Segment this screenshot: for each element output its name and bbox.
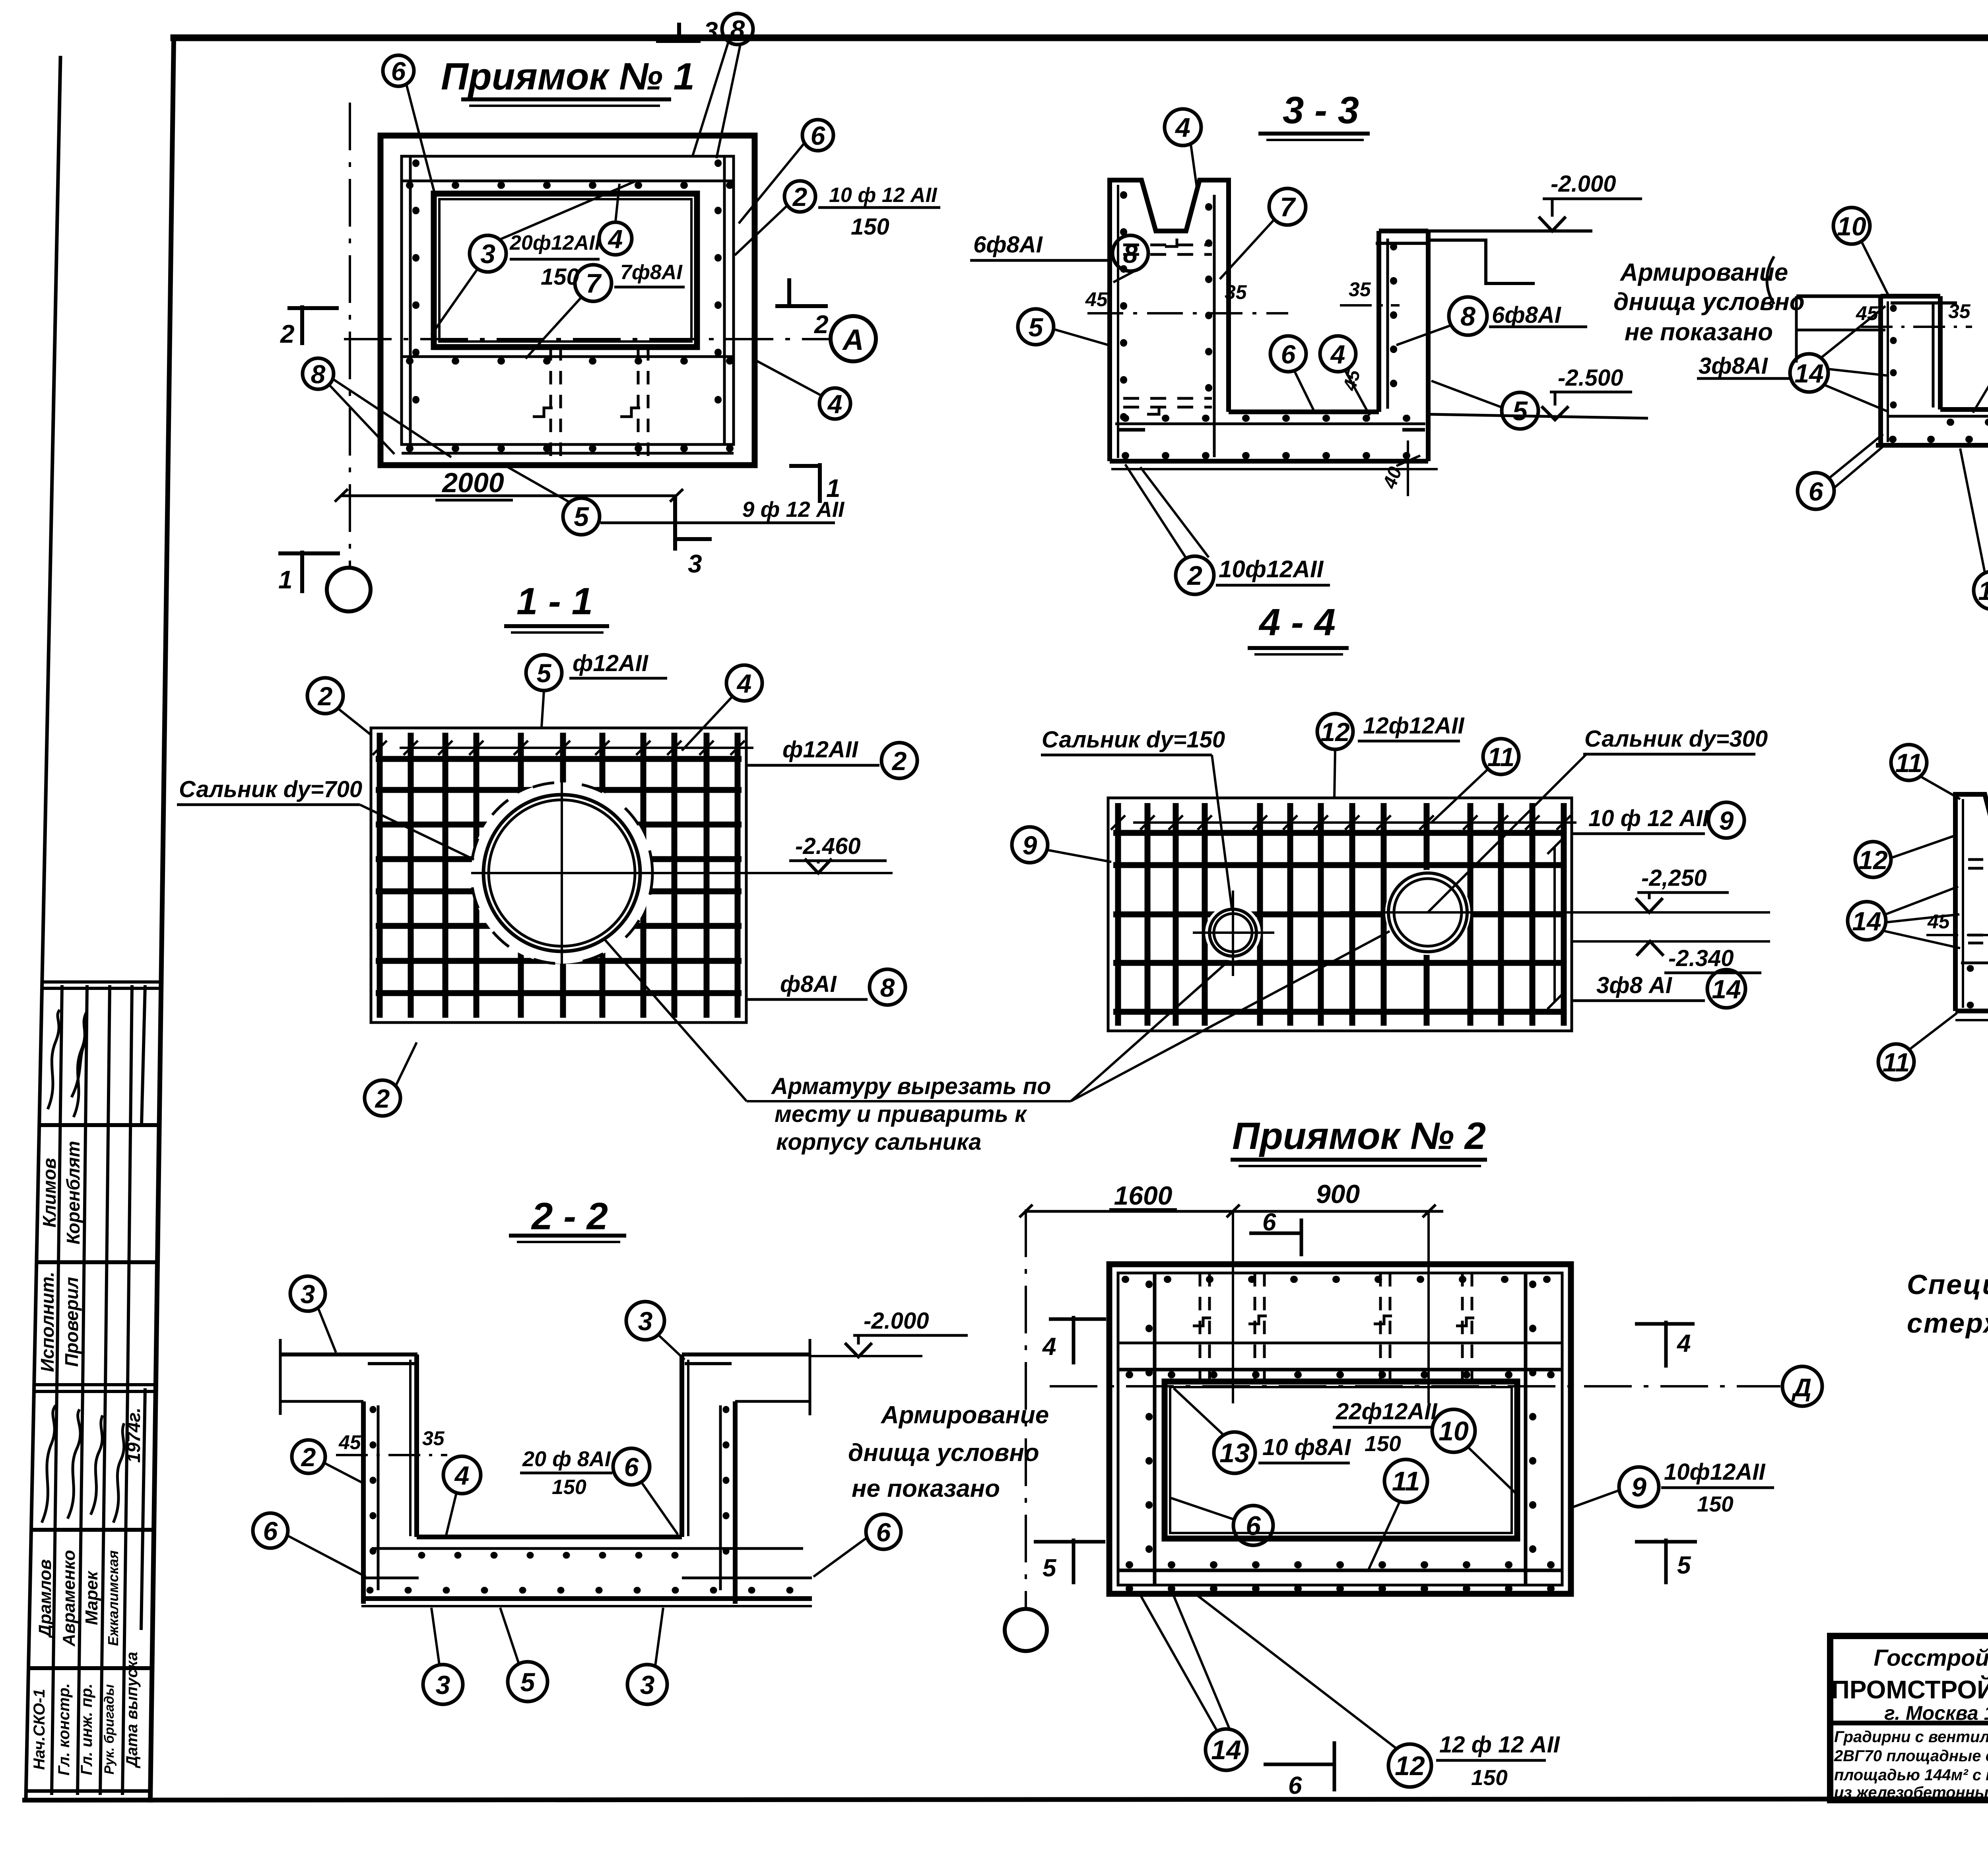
svg-text:2: 2 — [814, 310, 829, 339]
svg-text:4: 4 — [1042, 1333, 1056, 1360]
svg-text:Госстрой СССР: Госстрой СССР — [1874, 1645, 1988, 1671]
4-4 gland dy=300 rings — [1388, 873, 1467, 952]
svg-text:13: 13 — [1219, 1438, 1250, 1468]
lower stamp signatures — [42, 1405, 124, 1523]
stamp table top double line — [42, 980, 161, 984]
stamp row line under signatures — [39, 1123, 159, 1127]
svg-text:20ф12АII: 20ф12АII — [509, 231, 601, 254]
2-2 callout 3 top right — [626, 1302, 664, 1340]
svg-text:3: 3 — [704, 17, 718, 45]
bottom band rebar line — [402, 452, 734, 455]
step glyph left — [533, 408, 553, 417]
dimension 2000 — [335, 489, 683, 502]
5-5 measure line — [1861, 326, 1972, 328]
svg-text:площадью 144м² с каркасом: площадью 144м² с каркасом — [1834, 1766, 1988, 1784]
svg-text:9: 9 — [1023, 830, 1037, 860]
svg-text:Приямок № 2: Приямок № 2 — [1232, 1115, 1486, 1157]
svg-text:150: 150 — [851, 214, 889, 240]
П2 plan wall inner rectangle — [1118, 1273, 1562, 1585]
П2 section mark 6 bottom — [1264, 1741, 1334, 1791]
pit opening rectangle — [434, 194, 697, 347]
1-1 gland dy=700 rings — [483, 795, 640, 951]
svg-text:8: 8 — [1123, 239, 1138, 268]
6-6 left wall inner line — [1962, 799, 1964, 1008]
svg-text:900: 900 — [1316, 1179, 1360, 1209]
svg-text:ф12АII: ф12АII — [573, 650, 649, 676]
svg-text:35: 35 — [1225, 281, 1247, 303]
6-6 callout 11 top left — [1891, 745, 1927, 780]
svg-text:12 ф 12 АII: 12 ф 12 АII — [1439, 1732, 1561, 1758]
axis centerline A — [344, 338, 831, 340]
svg-text:стержни см. на листе АС -: стержни см. на листе АС - 17. — [1907, 1308, 1988, 1339]
svg-text:ПРОМСТРОЙПРОЕКТ: ПРОМСТРОЙПРОЕКТ — [1831, 1675, 1988, 1704]
svg-text:7: 7 — [586, 268, 602, 299]
svg-text:2000: 2000 — [441, 467, 504, 498]
П2 axis horizontal Д — [1050, 1385, 1780, 1387]
svg-text:5: 5 — [1043, 1554, 1057, 1582]
svg-text:6: 6 — [263, 1516, 278, 1546]
svg-text:4: 4 — [736, 669, 752, 698]
top band rebar line — [402, 180, 734, 182]
П2 top band rebar lines — [1118, 1342, 1562, 1345]
svg-text:Проверил: Проверил — [61, 1277, 82, 1367]
svg-text:45: 45 — [338, 1431, 361, 1453]
callout 6 right — [802, 120, 833, 151]
4-4 callout 12 with label 12ф12АII — [1317, 714, 1353, 749]
svg-text:не показано: не показано — [1625, 318, 1773, 346]
lower stamp column dividers — [52, 1388, 57, 1795]
svg-text:14: 14 — [1211, 1735, 1241, 1765]
5-5 left flange floor lines — [1796, 295, 1881, 298]
svg-text:2: 2 — [1186, 561, 1202, 591]
page frame bottom border — [25, 1799, 1988, 1800]
3-3 bottom slab — [1110, 459, 1428, 464]
svg-text:4 - 4: 4 - 4 — [1258, 601, 1336, 644]
1-1 callout 2 top left — [307, 678, 343, 714]
2-2 bottom slab — [417, 1535, 682, 1539]
1-1 top bar tick line — [400, 747, 753, 749]
svg-text:3: 3 — [480, 239, 495, 269]
svg-text:Исполнит.: Исполнит. — [37, 1272, 58, 1372]
2-2 callout 6 bottom right — [866, 1514, 901, 1549]
svg-text:3: 3 — [301, 1279, 315, 1309]
3-3 right wall — [1376, 231, 1381, 412]
svg-text:1 - 1: 1 - 1 — [516, 580, 593, 623]
paper fold edge line — [26, 58, 60, 1800]
svg-text:5: 5 — [574, 502, 589, 532]
3-3 callout 2 bottom with label 10ф12АII — [1176, 556, 1214, 594]
svg-text:2 - 2: 2 - 2 — [531, 1195, 608, 1238]
svg-text:Д: Д — [1791, 1373, 1811, 1402]
4-4 small gland mask — [1205, 905, 1261, 960]
П2 plan outer wall rectangle — [1109, 1264, 1571, 1594]
svg-text:10 ф 12 АII: 10 ф 12 АII — [1588, 805, 1710, 831]
svg-text:4: 4 — [827, 389, 843, 419]
svg-text:-2.000: -2.000 — [864, 1308, 929, 1334]
title block outer box — [1830, 1636, 1988, 1800]
svg-text:6: 6 — [391, 56, 406, 86]
section mark 1 left — [278, 551, 340, 593]
upper stamp names rotated — [37, 1141, 83, 1372]
svg-text:3: 3 — [638, 1306, 653, 1336]
svg-text:из железобетонных элементов: из железобетонных элементов — [1834, 1784, 1988, 1801]
svg-text:-2,250: -2,250 — [1641, 865, 1706, 891]
svg-text:10ф12АII: 10ф12АII — [1664, 1459, 1766, 1485]
svg-text:2: 2 — [280, 320, 295, 348]
svg-text:Приямок № 1: Приямок № 1 — [441, 55, 695, 98]
upper stamp column dividers — [57, 985, 62, 1388]
П2 dimension 1600/900 — [1019, 1205, 1443, 1403]
svg-text:-2.460: -2.460 — [795, 833, 860, 859]
svg-text:Гл. инж. пр.: Гл. инж. пр. — [78, 1684, 95, 1775]
П2 left band vertical rebar — [1153, 1273, 1157, 1585]
П2 section mark 4 left — [1049, 1316, 1106, 1364]
svg-text:Коренблят: Коренблят — [63, 1141, 83, 1245]
plan outer wall rectangle — [381, 136, 755, 465]
П2 callout 12 with label 12ф12АII/150 — [1388, 1744, 1431, 1787]
П2 callout 11 — [1384, 1459, 1427, 1502]
svg-text:6: 6 — [876, 1517, 891, 1547]
svg-text:8: 8 — [880, 973, 895, 1002]
svg-text:3: 3 — [436, 1670, 450, 1700]
svg-text:Авраменко: Авраменко — [59, 1550, 79, 1647]
pit opening inner line — [439, 199, 691, 342]
П2 axis vertical — [1025, 1209, 1027, 1607]
svg-text:20 ф 8АI: 20 ф 8АI — [522, 1447, 611, 1471]
page frame left border — [150, 38, 174, 1800]
svg-text:днища условно: днища условно — [848, 1439, 1039, 1467]
3-3 callout 7 — [1269, 188, 1306, 225]
svg-text:10: 10 — [1837, 212, 1866, 241]
svg-text:2ВГ70 площадные с секциями: 2ВГ70 площадные с секциями — [1834, 1747, 1988, 1765]
left margin stamp table — [26, 982, 161, 1795]
callout 2 right with label 10ф12АII/150 — [784, 181, 815, 212]
П2 callout 14 — [1206, 1729, 1247, 1770]
svg-text:150: 150 — [1365, 1431, 1401, 1456]
1-1 gland hole mask — [471, 782, 652, 964]
3-3 callout 4 lower — [1320, 336, 1356, 372]
4-4 big gland mask — [1385, 870, 1470, 955]
4-4 elevation -2.340 — [1572, 940, 1770, 943]
4-4 callout 9 left — [1012, 827, 1048, 863]
П2 section mark 6 top — [1249, 1219, 1301, 1256]
П2 step glyphs — [1193, 1318, 1211, 1326]
svg-text:Ежкалимская: Ежкалимская — [105, 1550, 121, 1646]
hidden dashed bar bottom band left — [549, 347, 552, 465]
svg-text:12: 12 — [1858, 845, 1888, 875]
svg-text:3ф8 АI: 3ф8 АI — [1596, 972, 1673, 998]
svg-text:10: 10 — [1439, 1416, 1469, 1446]
2-2 right wall — [679, 1354, 684, 1537]
4-4 gland centreline to elevation — [1340, 911, 1770, 914]
3-3 callout 6 — [1270, 336, 1306, 372]
svg-text:Сальник dy=700: Сальник dy=700 — [179, 776, 362, 802]
svg-text:Градирни с вентиляторами: Градирни с вентиляторами — [1834, 1728, 1988, 1746]
svg-text:45: 45 — [1927, 910, 1950, 933]
svg-text:Рук. бригады: Рук. бригады — [102, 1684, 117, 1775]
2-2 callout 5 bottom — [508, 1662, 547, 1702]
2-2 callout 3 top left — [290, 1276, 325, 1311]
svg-text:днища условно: днища условно — [1613, 288, 1805, 316]
svg-text:12: 12 — [1395, 1751, 1425, 1781]
callout 4 bottom right — [819, 388, 850, 419]
6-6 callout 11 bottom left — [1878, 1044, 1914, 1080]
svg-text:22ф12АII: 22ф12АII — [1336, 1399, 1438, 1424]
callout 7 with label 7ф8АI — [575, 265, 612, 301]
1-1 callout 5 with label ф12АII — [526, 655, 562, 691]
svg-text:7ф8АI: 7ф8АI — [620, 261, 683, 284]
П2 axis circle Д — [1782, 1366, 1822, 1406]
2-2 left wall — [361, 1401, 366, 1604]
lower stamp names rotated — [35, 1550, 121, 1647]
svg-text:2: 2 — [301, 1442, 316, 1472]
svg-text:6: 6 — [1262, 1209, 1276, 1236]
svg-text:11: 11 — [1895, 748, 1923, 778]
П2 callout 13 with label 10ф8АI — [1214, 1432, 1255, 1473]
svg-text:12: 12 — [1978, 576, 1988, 605]
axis circle A — [831, 316, 876, 361]
svg-text:9: 9 — [1631, 1472, 1646, 1502]
5-5 callout 14 left with label 3ф8АI — [1790, 354, 1828, 392]
svg-text:Армирование: Армирование — [1619, 259, 1788, 286]
svg-text:6: 6 — [1281, 340, 1296, 369]
1-1 callout 2 bottom — [365, 1080, 400, 1116]
3-3 callout 5 right — [1502, 392, 1538, 429]
1-1 cutting note leaders — [747, 1100, 1071, 1102]
3-3 wall dashed laps bottom — [1123, 397, 1212, 400]
П2 pit opening inner line — [1170, 1387, 1512, 1533]
svg-text:2: 2 — [792, 182, 808, 212]
svg-text:150: 150 — [1697, 1492, 1734, 1516]
svg-text:6: 6 — [624, 1452, 639, 1482]
3-3 notch anchor glyph — [1165, 239, 1177, 246]
svg-text:5: 5 — [1029, 312, 1044, 342]
svg-text:Нач.СКО-1: Нач.СКО-1 — [31, 1689, 48, 1770]
svg-text:6: 6 — [1288, 1772, 1302, 1799]
svg-text:6: 6 — [1246, 1511, 1261, 1541]
П2 right band vertical rebar — [1524, 1273, 1528, 1585]
1-1 callout 4 top right — [726, 665, 762, 701]
svg-text:4: 4 — [1676, 1330, 1691, 1357]
3-3 callout 4 top — [1165, 109, 1201, 146]
2-2 right flange floor lines — [682, 1352, 810, 1356]
svg-text:6ф8АI: 6ф8АI — [1492, 302, 1562, 328]
3-3 measure centerline — [1087, 312, 1288, 314]
svg-text:6ф8АI: 6ф8АI — [973, 232, 1043, 258]
svg-text:1974г.: 1974г. — [123, 1407, 144, 1463]
svg-text:14: 14 — [1712, 974, 1741, 1004]
3-3 left wall rebar vertical — [1213, 195, 1216, 457]
П2 section mark 5 left — [1034, 1539, 1105, 1584]
axis bubble circle — [327, 568, 371, 611]
П2 callout 6 — [1233, 1506, 1273, 1545]
svg-text:Арматуру вырезать по: Арматуру вырезать по — [771, 1073, 1051, 1099]
5-5 left wall — [1878, 296, 1883, 445]
6-6 callout 12 — [1855, 842, 1891, 877]
callout 6 top — [383, 55, 414, 86]
svg-text:10 ф 12 АII: 10 ф 12 АII — [829, 184, 938, 207]
step glyph right — [620, 408, 640, 417]
svg-text:14: 14 — [1852, 906, 1881, 936]
plan wall inner face rectangle — [402, 156, 734, 444]
lower stamp line under names — [29, 1666, 152, 1670]
svg-text:4: 4 — [454, 1461, 470, 1490]
П2 pit opening rectangle — [1165, 1382, 1517, 1539]
2-2 callout 2 — [292, 1440, 325, 1473]
5-5 callout 10 left — [1833, 208, 1870, 244]
4-4 callout 11 — [1483, 739, 1519, 774]
6-6 bottom slab — [1955, 1009, 1988, 1013]
svg-text:1600: 1600 — [1114, 1181, 1173, 1210]
2-2 left flange floor lines — [280, 1352, 417, 1356]
svg-text:35: 35 — [1948, 300, 1971, 322]
4-4 top bar tick line — [1133, 821, 1576, 824]
svg-text:11: 11 — [1883, 1048, 1910, 1077]
axis vertical line — [349, 103, 351, 568]
6-6 wall dashed laps — [1968, 858, 1988, 861]
П2 dashed hidden bars top band — [1199, 1273, 1202, 1382]
3-3 right wall rebar vertical — [1386, 239, 1389, 409]
svg-text:8: 8 — [730, 15, 745, 44]
svg-text:2: 2 — [375, 1084, 390, 1113]
4-4 right extent bracket — [1553, 847, 1556, 1002]
П2 section mark 4 right — [1635, 1321, 1695, 1368]
svg-text:корпусу сальника: корпусу сальника — [776, 1129, 981, 1155]
svg-text:10ф12АII: 10ф12АII — [1219, 556, 1324, 582]
stamp double line above lower stamp — [35, 1383, 156, 1386]
6-6 left wall with notch — [1955, 794, 1988, 1011]
svg-text:4: 4 — [1330, 340, 1345, 369]
svg-text:А: А — [842, 323, 864, 356]
section mark 1 right — [789, 463, 820, 503]
svg-text:6: 6 — [811, 121, 826, 150]
svg-text:Спецификацию арматуры на от: Спецификацию арматуры на отдельные — [1907, 1269, 1988, 1300]
svg-text:-2.340: -2.340 — [1668, 945, 1734, 971]
svg-text:-2.500: -2.500 — [1558, 365, 1623, 391]
svg-text:2: 2 — [891, 746, 907, 776]
svg-text:7: 7 — [1280, 192, 1296, 222]
svg-text:Климов: Климов — [39, 1158, 60, 1228]
svg-text:5: 5 — [1677, 1552, 1691, 1579]
3-3 left wall inner line — [1117, 185, 1119, 458]
section mark 2 left — [287, 305, 339, 345]
svg-text:8: 8 — [311, 359, 326, 389]
svg-text:3: 3 — [688, 549, 702, 578]
3-3 right wall top hook — [1376, 242, 1427, 245]
3-3 callout 5 left — [1018, 309, 1054, 345]
svg-text:8: 8 — [1460, 301, 1475, 332]
lower stamp titles rotated — [31, 1652, 141, 1775]
svg-text:4: 4 — [1175, 113, 1190, 143]
svg-text:ф8АI: ф8АI — [780, 971, 837, 997]
6-6 measure lines — [1926, 934, 1988, 936]
П2 callout 9 with label 10ф12АII/150 — [1619, 1467, 1659, 1507]
svg-text:5: 5 — [537, 658, 552, 688]
svg-text:Сальник dy=300: Сальник dy=300 — [1584, 726, 1768, 752]
lower stamp bottom line — [26, 1789, 150, 1793]
П2 section mark 5 right — [1635, 1539, 1697, 1584]
svg-text:9: 9 — [1719, 806, 1734, 835]
svg-text:4: 4 — [608, 224, 623, 254]
svg-text:Марек: Марек — [82, 1570, 101, 1625]
4-4 mesh bars — [1113, 803, 1567, 1026]
callout 8 top — [722, 14, 753, 45]
svg-text:ф12АII: ф12АII — [782, 737, 859, 763]
6-6 callout 14 left — [1848, 902, 1886, 940]
svg-text:150: 150 — [1471, 1765, 1508, 1790]
svg-text:35: 35 — [1349, 278, 1371, 301]
3-3 floor step right — [1428, 240, 1535, 283]
svg-text:150: 150 — [552, 1476, 586, 1499]
5-5 callout 12 with label 12ф12АII — [1974, 571, 1988, 609]
svg-text:5: 5 — [1512, 396, 1528, 426]
2-2 callout 3 bottom b — [627, 1665, 667, 1704]
left wall vertical rebar — [409, 156, 412, 444]
svg-text:3 - 3: 3 - 3 — [1283, 89, 1359, 132]
svg-text:11: 11 — [1487, 742, 1515, 772]
page frame top border — [174, 35, 1988, 41]
2-2 callout 3 bottom a — [423, 1665, 463, 1704]
stamp row line under names — [37, 1260, 158, 1264]
section mark 3 top — [656, 23, 701, 43]
1-1 mesh bars — [376, 733, 742, 1018]
svg-text:12ф12АII: 12ф12АII — [1363, 713, 1465, 739]
svg-text:5: 5 — [520, 1667, 536, 1697]
svg-text:35: 35 — [422, 1427, 445, 1449]
3-3 ground level line — [1428, 229, 1592, 233]
svg-text:не показано: не показано — [852, 1475, 1000, 1502]
mid rebar line below opening — [402, 355, 734, 358]
2-2 measure line — [336, 1454, 447, 1456]
svg-text:Сальник dy=150: Сальник dy=150 — [1042, 727, 1225, 753]
svg-text:месту и приварить к: месту и приварить к — [775, 1101, 1027, 1127]
section mark 3 bottom — [675, 495, 712, 551]
svg-text:12: 12 — [1320, 717, 1350, 747]
П2 bottom band rebar lines — [1118, 1569, 1562, 1572]
1-1 gland centrelines — [471, 872, 893, 874]
svg-text:3ф8АI: 3ф8АI — [1699, 353, 1769, 379]
4-4 mesh outer rectangle — [1108, 798, 1572, 1031]
svg-text:45: 45 — [1085, 288, 1108, 310]
svg-text:Гл. констр.: Гл. констр. — [55, 1683, 73, 1775]
svg-text:Драмлов: Драмлов — [35, 1559, 55, 1639]
svg-text:1: 1 — [278, 565, 293, 594]
svg-text:Армирование: Армирование — [880, 1401, 1049, 1429]
5-5 callout 6 bottom left — [1798, 473, 1834, 509]
callout 5 with label 9ф12АII — [563, 498, 600, 535]
right wall vertical rebar — [723, 156, 726, 444]
svg-text:11: 11 — [1392, 1466, 1420, 1496]
svg-text:Дата выпуска: Дата выпуска — [123, 1652, 141, 1768]
svg-text:14: 14 — [1794, 359, 1823, 388]
callout 8 bottom left — [303, 358, 334, 389]
callout 4 in opening — [599, 222, 632, 255]
1-1 mesh outer rectangle — [371, 728, 746, 1023]
svg-text:-2.000: -2.000 — [1551, 171, 1616, 197]
3-3 wall dashed laps top — [1123, 244, 1212, 246]
upper stamp signatures — [48, 1010, 87, 1117]
П2 axis bubble — [1005, 1609, 1047, 1651]
5-5 bottom slab — [1940, 407, 1988, 412]
3-3 callout 8 right with label 6ф8АI — [1449, 297, 1487, 335]
svg-text:9 ф 12 АII: 9 ф 12 АII — [742, 497, 845, 522]
title block left horizontal divider — [1830, 1721, 1988, 1725]
lower stamp line under signatures — [31, 1528, 154, 1532]
callout 3 with label 20ф12АII/150 — [470, 235, 506, 272]
2-2 callout 4 — [443, 1456, 481, 1494]
svg-text:6: 6 — [1809, 477, 1824, 506]
svg-text:2: 2 — [317, 681, 333, 711]
